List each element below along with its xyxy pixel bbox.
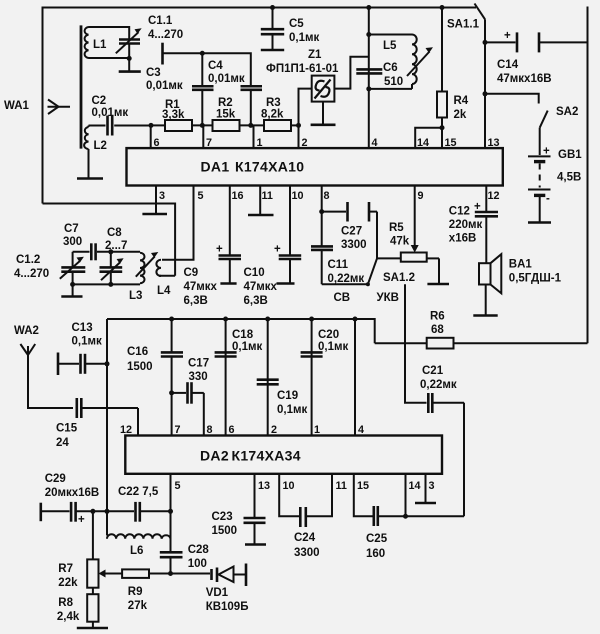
svg-text:7: 7 [206, 137, 212, 149]
switch SA2 [540, 106, 579, 128]
node: C5 on top rail [270, 5, 275, 10]
svg-text:C12: C12 [449, 206, 470, 218]
svg-text:C3: C3 [146, 67, 161, 79]
node: tank top mid [108, 249, 113, 254]
svg-text:20мкх16В: 20мкх16В [45, 487, 100, 499]
svg-text:1500: 1500 [212, 525, 238, 537]
resistor R2 15k [213, 97, 240, 131]
wire: L2 top to C2 [89, 125, 106, 127]
svg-text:К174ХА10: К174ХА10 [235, 159, 304, 175]
pin 2 stub DA1 [298, 125, 300, 148]
wire: supply branch to SA2 [485, 94, 539, 104]
svg-text:R8: R8 [58, 597, 73, 609]
svg-text:11: 11 [262, 190, 273, 202]
svg-text:160: 160 [366, 548, 385, 560]
pin 7 stub DA1 [202, 125, 204, 148]
svg-text:11: 11 [336, 480, 347, 492]
svg-text:15: 15 [357, 480, 369, 492]
node: tank bottom corner [366, 86, 371, 91]
svg-text:WA1: WA1 [4, 100, 30, 112]
svg-text:2k: 2k [454, 109, 467, 121]
svg-text:4,5В: 4,5В [557, 172, 581, 184]
svg-text:1: 1 [314, 424, 320, 436]
svg-text:+: + [474, 201, 481, 213]
wire: C27 down to R5 left [377, 212, 401, 259]
svg-text:68: 68 [431, 324, 444, 336]
wire: corner riser to DA2 top rail [107, 319, 375, 343]
resistor R8 2,4k [57, 594, 99, 628]
node: R4 to pins 14/15 [440, 125, 445, 130]
svg-text:330: 330 [189, 371, 208, 383]
node: C16 rail tap [169, 317, 174, 322]
svg-text:10: 10 [292, 190, 304, 202]
svg-text:4: 4 [372, 137, 378, 149]
wire: Z1 input riser [299, 89, 312, 126]
svg-text:7: 7 [175, 424, 181, 436]
wire: Z1 output to tank [334, 57, 368, 89]
switch SA1.1 [447, 4, 485, 31]
svg-text:C10: C10 [244, 267, 265, 279]
wire: tank bottom to L5 [369, 88, 412, 90]
diode VD1 KV109B (varicap) [171, 564, 249, 614]
capacitor C1.2 (variable, tank left leg) [14, 252, 85, 285]
svg-text:C18: C18 [232, 329, 254, 341]
capacitor C20 0,1mk [301, 319, 349, 436]
capacitor C13 0,1mk [58, 322, 107, 375]
wire: pin 14 lead [405, 474, 407, 516]
svg-text:2: 2 [271, 424, 277, 436]
svg-text:C6: C6 [383, 62, 398, 74]
svg-text:L5: L5 [383, 40, 397, 52]
svg-text:C29: C29 [45, 473, 66, 485]
svg-text:3300: 3300 [294, 547, 320, 559]
svg-text:24: 24 [56, 437, 69, 449]
svg-text:C22 7,5: C22 7,5 [118, 486, 159, 498]
node: pin7/C3 [200, 123, 205, 128]
node: C18 rail tap [223, 317, 228, 322]
wire: SA1.1 pole down to pin 13 [484, 19, 486, 148]
svg-text:L2: L2 [94, 140, 107, 152]
svg-text:R5: R5 [389, 222, 404, 234]
svg-text:5: 5 [198, 190, 204, 202]
svg-text:2,4k: 2,4k [57, 611, 80, 623]
svg-text:47мкх16В: 47мкх16В [497, 73, 552, 85]
capacitor C24 3300 between pins 10 and 11 [279, 474, 332, 559]
terminal bar of C1.1 rotor [161, 43, 164, 65]
ground (R8) [77, 627, 108, 630]
node: L6 left / feed vertical on rail [105, 509, 110, 514]
svg-text:8,2k: 8,2k [261, 109, 284, 121]
wire: R6 supply rail [454, 342, 588, 344]
svg-text:Z1: Z1 [308, 49, 322, 61]
wire: pin 8 lead [321, 186, 323, 212]
svg-text:2...7: 2...7 [105, 240, 127, 252]
svg-text:УКВ: УКВ [377, 292, 399, 304]
svg-text:DA1: DA1 [201, 159, 230, 175]
capacitor C18 0,1mk [215, 319, 263, 436]
svg-text:0,1мк: 0,1мк [72, 336, 102, 348]
svg-text:10: 10 [283, 480, 295, 492]
resistor R4 2k [437, 8, 469, 149]
svg-text:C4: C4 [208, 60, 223, 72]
node: pin5 on C29 rail [168, 509, 173, 514]
ground (L2) [77, 149, 103, 179]
svg-text:SA2: SA2 [556, 106, 578, 118]
svg-text:47k: 47k [390, 236, 410, 248]
ground (battery minus) [528, 197, 551, 223]
wire: L5/C6 tank vertical down to pin 4 [368, 8, 370, 149]
ground (speaker) [473, 314, 497, 317]
svg-text:47мкх: 47мкх [184, 281, 218, 293]
battery GB1 4,5V [528, 146, 582, 206]
antenna WA2 [14, 325, 39, 355]
wire: C1.1 rotor to C3/C4 [163, 52, 203, 54]
svg-text:C7: C7 [64, 223, 79, 235]
node: C3 top [200, 51, 205, 56]
svg-text:C24: C24 [294, 532, 316, 544]
wire: left border down-lead [42, 7, 44, 204]
capacitor C8 2...7 (trimmer, tank mid leg) [100, 227, 128, 284]
svg-text:L3: L3 [129, 290, 142, 302]
svg-text:L4: L4 [157, 285, 171, 297]
wire: top +V rail from left corner to SA1.1 contact [43, 7, 477, 9]
svg-text:0,01мк: 0,01мк [208, 73, 245, 85]
pin 3 lead with ground (DA2) [415, 474, 436, 503]
node: C13 tap on vertical [105, 361, 110, 366]
wire: C21 down to pin14 node [463, 403, 465, 517]
wire: pin 5 lead down to L4 top [162, 186, 194, 260]
svg-text:C9: C9 [184, 267, 199, 279]
node: L1 tank bottom [127, 56, 132, 61]
svg-text:27k: 27k [128, 600, 148, 612]
svg-text:+: + [78, 514, 85, 526]
svg-text:х16В: х16В [449, 233, 477, 245]
resistor R1 3,3k [162, 99, 192, 131]
wire: WA2 down-lead to C15 [28, 355, 73, 408]
node: tank bottom left [70, 282, 75, 287]
svg-text:15: 15 [445, 137, 457, 149]
svg-text:0,01мк: 0,01мк [146, 80, 183, 92]
capacitor C10 47mk 6,3V [244, 186, 302, 308]
svg-text:+: + [504, 30, 511, 42]
svg-text:+: + [274, 244, 281, 256]
capacitor C6 [356, 62, 403, 88]
svg-text:8: 8 [324, 190, 330, 202]
node: tank top corner [366, 32, 371, 37]
resistor R5 47k (volume pot) [389, 186, 439, 262]
svg-text:КВ109Б: КВ109Б [206, 601, 249, 613]
arrow: tuning slug through L3/L4 [136, 252, 159, 277]
node: C20 rail tap [309, 317, 314, 322]
svg-text:0,5ГДШ-1: 0,5ГДШ-1 [509, 273, 562, 285]
svg-text:DA2: DA2 [200, 448, 229, 464]
wire: SA2 to battery [539, 128, 541, 155]
svg-text:220мк: 220мк [449, 219, 483, 231]
svg-text:R9: R9 [128, 586, 143, 598]
node: pin 8 / C27 / C11 [319, 209, 324, 214]
node: varicap junction [168, 571, 173, 576]
wire: rail R1-R2 [192, 124, 213, 126]
capacitor C3 [146, 53, 214, 125]
svg-text:6: 6 [154, 137, 160, 149]
svg-text:C2: C2 [92, 95, 107, 107]
capacitor C9 47mk 6,3V [184, 186, 242, 308]
svg-text:2: 2 [302, 137, 308, 149]
node: C19 rail tap [265, 317, 270, 322]
capacitor C15 24 [56, 398, 138, 449]
ground (Z1) [311, 102, 336, 125]
svg-text:3300: 3300 [341, 239, 367, 251]
capacitor C2 [92, 95, 152, 136]
wire: L1 tank loop [89, 27, 130, 40]
svg-text:BA1: BA1 [509, 259, 533, 271]
wire: tank top to L5 [369, 34, 412, 36]
svg-text:47мкх: 47мкх [244, 281, 278, 293]
node: C14 tap [483, 40, 488, 45]
svg-text:C17: C17 [188, 358, 209, 370]
capacitor C1.1 (variable) [116, 15, 183, 53]
svg-text:3: 3 [159, 190, 165, 202]
svg-text:C20: C20 [318, 329, 339, 341]
op-amp U2: IC DA2 K174XA34 box [125, 436, 442, 474]
svg-text:R2: R2 [218, 97, 233, 109]
svg-text:22k: 22k [58, 577, 78, 589]
node: pin2/Z1 [296, 123, 301, 128]
op-amp U1: IC DA1 K174XA10 box [127, 148, 503, 185]
svg-text:8: 8 [207, 424, 213, 436]
antenna WA1 [4, 100, 70, 115]
svg-text:510: 510 [384, 76, 403, 88]
capacitor C5 [261, 8, 320, 51]
svg-text:C8: C8 [107, 227, 122, 239]
wire: C13/C16 vertical feed down to C29 rail [106, 319, 108, 536]
wire: rail to pin 4 DA2 [354, 319, 356, 436]
svg-text:C14: C14 [497, 59, 519, 71]
node: R4 on top rail [440, 5, 445, 10]
inductor L5 (tunable) [383, 35, 433, 89]
svg-text:16: 16 [232, 190, 244, 202]
wire: right border from top corner down to R6 rail [587, 7, 589, 344]
pin 6 stub DA1 [150, 125, 152, 148]
capacitor C23 1500 [212, 474, 267, 545]
svg-text:+: + [216, 244, 223, 256]
filter Z1 FP1P1-61-01 [266, 49, 339, 102]
wire: L4 bottom link [159, 275, 175, 277]
ground (L1 tank) [119, 58, 141, 71]
capacitor C4 [208, 60, 262, 125]
svg-text:14: 14 [409, 480, 421, 492]
svg-text:0,1мк: 0,1мк [318, 341, 348, 353]
svg-text:3: 3 [429, 480, 435, 492]
pin 1 stub DA1 [253, 125, 255, 148]
speaker BA1 0,5GDSh-1 [479, 254, 562, 315]
svg-text:C13: C13 [72, 322, 93, 334]
capacitor C11 0,22mk [311, 212, 364, 285]
node: tank bottom mid [108, 282, 113, 287]
node: tank feed on top rail [366, 5, 371, 10]
svg-text:R7: R7 [58, 563, 73, 575]
node: pin 4 rail tap [353, 317, 358, 322]
wire: resistor rail [151, 124, 165, 126]
svg-text:-: - [546, 193, 550, 205]
capacitor C14 47mk x16V [485, 30, 588, 85]
magnetic antenna ferrite rod [80, 25, 83, 148]
capacitor C22 7,5 [118, 486, 171, 522]
capacitor C12 220mk x16V [449, 186, 498, 264]
svg-text:0,1мк: 0,1мк [277, 404, 307, 416]
svg-text:SA1.2: SA1.2 [383, 272, 415, 284]
inductor L4 [156, 260, 171, 297]
wire: lower rail from left border to L4 bottom drop [43, 204, 176, 276]
wire: rail R3 to Z1 [291, 124, 299, 126]
switch SA1.2 [334, 258, 415, 304]
ground (CB tank) [61, 284, 82, 296]
svg-text:14: 14 [417, 137, 429, 149]
svg-text:C21: C21 [422, 365, 444, 377]
svg-text:R3: R3 [266, 97, 281, 109]
svg-text:3,3k: 3,3k [162, 109, 185, 121]
svg-text:12: 12 [488, 190, 500, 202]
svg-text:9: 9 [418, 190, 424, 202]
wire: to C4 [202, 53, 251, 86]
capacitor C29 20mk x16V [41, 473, 134, 526]
svg-text:4...270: 4...270 [148, 29, 183, 41]
svg-text:13: 13 [488, 137, 500, 149]
svg-text:GB1: GB1 [558, 149, 582, 161]
svg-text:0,01мк: 0,01мк [92, 107, 129, 119]
svg-text:C23: C23 [212, 511, 233, 523]
svg-text:5: 5 [175, 480, 181, 492]
svg-text:ФП1П1-61-01: ФП1П1-61-01 [266, 63, 339, 75]
resistor R7 22k (tuning pot) [58, 511, 98, 594]
svg-text:4...270: 4...270 [14, 268, 49, 280]
inductor L1 [85, 27, 107, 58]
pin 3 lead with ground [142, 186, 167, 215]
ground (R5 cold end) [427, 258, 449, 284]
svg-text:C5: C5 [289, 18, 304, 30]
svg-text:C11: C11 [328, 259, 349, 271]
node: C17 tap [169, 390, 174, 395]
wire: rail R2-R3 [240, 124, 265, 126]
inductor L3 [129, 253, 145, 302]
capacitor C7 300 [63, 223, 96, 260]
svg-text:0,22мк: 0,22мк [420, 379, 457, 391]
node: pin1/C4 [248, 123, 253, 128]
svg-text:0,1мк: 0,1мк [232, 341, 262, 353]
node: SA2 branch tap [483, 91, 488, 96]
capacitor C19 0,1mk [257, 319, 308, 436]
svg-text:R6: R6 [430, 311, 445, 323]
capacitor C28 100 [160, 544, 210, 574]
node: pin 14 / C25 / C21 [403, 514, 408, 519]
wire: node to C21 drop [406, 515, 465, 517]
svg-text:VD1: VD1 [206, 587, 229, 599]
svg-text:WA2: WA2 [14, 325, 39, 337]
inductor L2 [84, 127, 107, 152]
svg-text:C28: C28 [188, 544, 210, 556]
svg-text:100: 100 [188, 558, 207, 570]
wire: C11 to SA1.2 CB contact [322, 283, 368, 285]
wire: pin 5 lead down through rail to L6/C28 [170, 474, 172, 553]
svg-text:6,3В: 6,3В [184, 295, 208, 307]
capacitor C25 160 between pin 15 and pin 14 node [354, 474, 406, 560]
svg-text:C25: C25 [366, 533, 388, 545]
svg-text:SA1.1: SA1.1 [447, 19, 480, 31]
svg-text:1500: 1500 [127, 361, 153, 373]
svg-text:1: 1 [257, 137, 263, 149]
inductor L6 [107, 534, 171, 557]
wire: CB tank bottom [73, 283, 140, 285]
svg-text:15k: 15k [216, 109, 236, 121]
capacitor C16 1500 [127, 319, 183, 436]
svg-text:13: 13 [258, 480, 270, 492]
pin 11 lead with ground [248, 186, 274, 216]
resistor R6 68 [427, 311, 454, 349]
wire: C15 to pin 12 [137, 408, 139, 436]
resistor R3 8,2k [261, 97, 291, 131]
capacitor C27 3300 [322, 202, 377, 251]
svg-text:300: 300 [63, 236, 82, 248]
svg-text:4: 4 [358, 424, 364, 436]
node: pin6 junction [149, 123, 154, 128]
svg-text:C19: C19 [277, 390, 298, 402]
capacitor C21 0,22mk [420, 365, 464, 413]
svg-text:12: 12 [120, 424, 132, 436]
svg-text:6: 6 [229, 424, 235, 436]
resistor R9 27k with wiper arrow [99, 569, 171, 612]
svg-text:C1.2: C1.2 [16, 254, 40, 266]
svg-text:L6: L6 [130, 545, 143, 557]
svg-text:C27: C27 [341, 226, 362, 238]
svg-text:0,1мк: 0,1мк [289, 32, 319, 44]
wire: jog to pin 14 [415, 128, 442, 148]
svg-text:C1.1: C1.1 [148, 15, 173, 27]
wire: CB tank top [73, 251, 90, 253]
svg-text:СВ: СВ [334, 292, 351, 304]
svg-text:L1: L1 [93, 39, 107, 51]
svg-text:R4: R4 [454, 95, 469, 107]
svg-text:C16: C16 [127, 346, 148, 358]
wire: R6 rail left segment to corner [375, 342, 427, 344]
node: R7 tap on rail [90, 509, 95, 514]
svg-text:+: + [543, 146, 550, 158]
svg-text:К174ХА34: К174ХА34 [232, 448, 301, 464]
svg-text:6,3В: 6,3В [244, 295, 268, 307]
wire: UKV contact down, across R6 rail, to C21 [405, 284, 427, 403]
wire: C17 to pin 8 [203, 393, 205, 436]
svg-text:C15: C15 [56, 423, 78, 435]
capacitor C17 330 [172, 358, 210, 404]
